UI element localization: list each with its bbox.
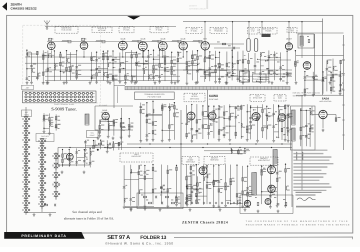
pilot label line 2 xyxy=(296,194,316,195)
wire ratio det leg 1 xyxy=(123,165,125,206)
value label xyxy=(154,187,156,190)
ground ratio det xyxy=(130,207,133,210)
resistor sound IF 3.2 xyxy=(113,123,115,126)
value label xyxy=(188,65,190,68)
junction volume 3 xyxy=(100,140,101,141)
value label xyxy=(289,116,291,119)
junction sync 18 xyxy=(278,105,279,106)
resistor picture tube leads 6.1 xyxy=(174,106,176,109)
value label xyxy=(286,75,289,78)
resistor sync coupling 2.2 xyxy=(238,151,240,154)
value label xyxy=(264,126,267,129)
value label xyxy=(307,35,309,38)
junction top bus xyxy=(248,21,249,22)
capacitor sync 3.2 xyxy=(196,130,199,132)
wire sound IF leg 4 xyxy=(120,119,122,136)
capacitor sync 8.2 xyxy=(223,128,226,130)
value label xyxy=(163,188,165,191)
wire discriminator leg 3 xyxy=(176,165,178,203)
value label xyxy=(279,176,281,179)
coil power filter 1.1 xyxy=(327,60,328,64)
value label xyxy=(288,72,291,75)
ground tuner RF 5 xyxy=(47,81,50,84)
value label xyxy=(45,51,47,54)
value label xyxy=(206,73,209,76)
capacitor ratio det 2.2 xyxy=(130,199,133,201)
resistor deflection 6.2 xyxy=(213,182,215,185)
junction ratio det 5 xyxy=(152,164,153,165)
wire deflection interconnect 3 xyxy=(196,188,203,190)
capacitor audio 3.1 xyxy=(75,152,78,154)
junction sound IF i2 xyxy=(108,121,109,122)
value label xyxy=(39,72,41,75)
capacitor video 7.3 xyxy=(218,78,221,80)
capacitor video 10.2 xyxy=(237,78,240,80)
wire audio takeoff interconnect 1 xyxy=(107,147,113,149)
junction ratio det i3 xyxy=(130,172,131,173)
resistor lv filter 2 xyxy=(165,196,168,198)
value label xyxy=(188,118,191,121)
value label xyxy=(244,193,247,196)
capacitor audio 5.2 xyxy=(89,163,92,165)
value label xyxy=(45,114,48,117)
junction hv i1 xyxy=(304,79,305,80)
wire tuner RF leg 3 xyxy=(36,51,38,80)
junction pix IF i2 xyxy=(153,59,154,60)
svg-text:S-9009 Tuner.: S-9009 Tuner. xyxy=(51,106,77,111)
junction sync 5 xyxy=(208,105,209,106)
value label xyxy=(328,66,331,69)
value label xyxy=(132,200,135,203)
value label xyxy=(306,87,308,90)
value label xyxy=(249,132,251,135)
svg-text:VOL: VOL xyxy=(91,132,94,135)
wire deflection interconnect 1 xyxy=(196,195,207,197)
wire pix IF leg 14 xyxy=(164,51,166,81)
value label xyxy=(204,127,207,130)
ground IF strip xyxy=(271,81,274,84)
value label xyxy=(188,69,191,72)
junction pix IF i8 xyxy=(91,77,92,78)
wire IF strip interconnect lower xyxy=(45,69,230,71)
value label xyxy=(142,112,144,115)
ground sync 2 xyxy=(190,140,193,143)
value label xyxy=(215,108,217,111)
value label xyxy=(62,56,65,59)
wire damper link B xyxy=(263,73,292,75)
resistor hv 4.1 xyxy=(330,77,332,80)
wire ratio det bottom xyxy=(125,206,154,208)
tuner contact row2 pin7 xyxy=(50,96,52,98)
coil tuner RF 8.1 xyxy=(67,58,68,62)
value label xyxy=(122,126,125,129)
resistor pix IF 6.2 xyxy=(119,69,121,72)
value label xyxy=(250,57,253,60)
electrolytic capacitor can C60a xyxy=(247,39,250,52)
tube V11 sync amplifier xyxy=(208,112,216,120)
junction sync 4 xyxy=(202,105,203,106)
coil sync 16.2 xyxy=(267,117,268,121)
resistor deflection 5.2 xyxy=(206,185,208,188)
junction pix IF 3 xyxy=(103,51,104,52)
wire discriminator leg 1 xyxy=(160,165,162,204)
value label xyxy=(198,192,201,195)
value label xyxy=(282,64,284,67)
capacitor audio coupling xyxy=(110,143,112,146)
value label xyxy=(308,133,311,136)
capacitor picture tube leads 2.1 xyxy=(146,115,149,117)
coil tuner RF 6.1 xyxy=(54,64,55,68)
tube V15 sound IF xyxy=(102,113,109,120)
wire video leg 5 xyxy=(209,52,211,81)
wire fine tuning leg 3 xyxy=(55,114,57,130)
ground picture tube leads 4 xyxy=(161,139,164,142)
value label xyxy=(121,67,124,70)
value label xyxy=(188,72,191,75)
value label xyxy=(280,117,282,120)
svg-text:ZENITH: ZENITH xyxy=(189,5,197,8)
resistor picture tube leads 1.2 xyxy=(140,110,142,113)
value label xyxy=(306,74,308,77)
junction hor out 2 xyxy=(270,165,271,166)
tuner contact row1 pin7 xyxy=(50,92,52,94)
ground ratio det 2 xyxy=(144,207,147,210)
wire stub xyxy=(113,67,115,69)
wire pix IF leg 12 xyxy=(153,50,155,81)
wire deflection leg 6 xyxy=(213,166,215,205)
junction audio 5 xyxy=(90,148,91,149)
tube V18 horizontal output xyxy=(268,185,276,193)
capacitor ratio det 4.1 xyxy=(144,172,147,174)
wire band branch xyxy=(117,86,119,103)
wire channel strip column B spine xyxy=(41,138,43,212)
capacitor vert out extra 2.1 xyxy=(191,187,194,189)
value label xyxy=(86,158,88,161)
value label xyxy=(208,173,210,176)
tuner contact row3 pin6 xyxy=(45,99,47,101)
value label xyxy=(109,61,111,64)
svg-text:RATIO DET: RATIO DET xyxy=(132,155,143,158)
junction video 1 xyxy=(186,51,187,52)
value label xyxy=(263,170,266,173)
value label xyxy=(264,107,266,110)
junction pix IF 5 xyxy=(112,50,113,51)
wire vert out extra leg 1 xyxy=(186,175,188,203)
capacitor sync 2.1 xyxy=(191,129,194,131)
wire stub xyxy=(267,68,269,70)
svg-text:6AU6: 6AU6 xyxy=(141,37,146,40)
svg-text:45.75 MC: 45.75 MC xyxy=(98,29,107,32)
junction sync 7 xyxy=(218,105,219,106)
value label xyxy=(102,144,104,147)
value label xyxy=(150,53,152,56)
resistor deflection 7.2 xyxy=(218,189,220,192)
tuner contact row1 pin17 xyxy=(91,92,93,94)
wire deflection interconnect 6 xyxy=(187,186,191,188)
value label xyxy=(341,72,344,75)
note line 8 xyxy=(293,173,326,174)
wire stub xyxy=(261,65,264,67)
svg-text:PRELIMINARY DATA: PRELIMINARY DATA xyxy=(21,234,66,238)
capacitor pix IF 2.1 xyxy=(95,60,98,62)
value label xyxy=(264,55,266,58)
wire tuner RF interconnect 2 xyxy=(32,76,38,78)
value label xyxy=(93,74,95,77)
resistor deflection 8.2 xyxy=(225,187,227,190)
coil deflection 5.1 xyxy=(207,174,208,178)
resistor video 5.3 xyxy=(209,73,211,76)
value label xyxy=(217,41,220,44)
resistor tuner RF 10.2 xyxy=(76,71,78,74)
value label xyxy=(289,112,292,115)
resistor volume 2.1 xyxy=(93,145,95,148)
junction sync bus xyxy=(281,143,282,144)
value label xyxy=(315,75,318,78)
capacitor damper 2.1 xyxy=(268,56,271,58)
value label xyxy=(93,55,96,58)
value label xyxy=(239,59,241,62)
junction deflection 5 xyxy=(206,165,207,166)
resistor deflection 9.1 xyxy=(230,179,232,182)
resistor pix IF 16.2 xyxy=(177,58,179,61)
junction tuner RF 1 xyxy=(26,50,27,51)
wire video leg 11 xyxy=(242,51,244,82)
tuner contact row3 pin12 xyxy=(70,99,72,101)
resistor pilot 2 xyxy=(285,202,287,205)
capacitor picture tube leads 2.3 xyxy=(146,135,149,137)
wire tuner RF leg 8 xyxy=(66,51,68,81)
wire sync bus xyxy=(127,143,292,145)
junction width feed 2 xyxy=(232,63,233,64)
capacitor hor osc box 2.3 xyxy=(305,136,308,138)
junction video 7 xyxy=(219,52,220,53)
capacitor deflection 2.3 xyxy=(190,195,193,197)
wire audio takeoff leg 1 xyxy=(106,140,108,150)
wire video interconnect 6 xyxy=(232,75,238,77)
capacitor sync 16.1 xyxy=(266,114,269,116)
value label xyxy=(279,170,282,173)
ground ratio det 4 xyxy=(144,205,147,208)
value label xyxy=(276,52,278,55)
wire hor control grid xyxy=(312,106,319,115)
resistor hor osc box 3.3 xyxy=(309,128,311,131)
value label xyxy=(173,69,175,72)
coil video 9.1 xyxy=(232,64,233,68)
horizontal transformer winding xyxy=(273,150,277,166)
value label xyxy=(342,82,344,85)
junction B+ bus xyxy=(104,147,105,148)
value label xyxy=(150,73,153,76)
capacitor lv filter 1 xyxy=(156,196,158,199)
junction damper i2 xyxy=(260,77,261,78)
wire tube cathode lead xyxy=(50,50,52,57)
resistor lv filter 4 xyxy=(171,202,174,204)
wire hor osc box leg 1 xyxy=(300,109,302,146)
value label xyxy=(188,197,191,200)
svg-text:IF COIL: IF COIL xyxy=(191,29,197,32)
value label xyxy=(282,76,285,79)
ground hor out 2 xyxy=(269,205,272,208)
ground can A xyxy=(247,79,250,82)
coil pix IF 1.3 xyxy=(91,75,92,79)
junction audio 4 xyxy=(84,149,85,150)
wire ratio det interconnect 3 xyxy=(131,172,139,174)
value label xyxy=(206,69,209,72)
svg-text:VERT OUT: VERT OUT xyxy=(186,161,196,164)
wire tuner RF leg 10 xyxy=(76,51,78,80)
ground volume 1 xyxy=(84,148,87,151)
value label xyxy=(192,173,195,176)
wire deflection leg 2 xyxy=(190,165,192,205)
wire discriminator leg 2 xyxy=(167,165,169,205)
junction sync bus xyxy=(229,143,230,144)
ground pix IF 16 xyxy=(177,80,180,83)
junction sync i13 xyxy=(278,106,279,107)
svg-text:CONTROL: CONTROL xyxy=(255,78,264,81)
junction top bus xyxy=(232,21,233,22)
capacitor video 5.2 xyxy=(209,68,212,70)
capacitor sync 10.2 xyxy=(235,117,238,119)
ground IF strip xyxy=(109,81,112,84)
value label xyxy=(268,115,270,118)
coil sound IF 1.1 xyxy=(100,120,101,124)
coil pix IF 11.2 xyxy=(148,75,149,79)
wire video feed horizontal xyxy=(114,85,125,87)
value label xyxy=(45,70,48,73)
value label xyxy=(188,199,191,202)
junction vert out extra i1 xyxy=(186,188,187,189)
wire channel strip column A spine xyxy=(25,107,27,212)
wire hor osc feed xyxy=(204,150,250,152)
wire audio takeoff leg 3 xyxy=(118,142,120,150)
tick on B+ riser xyxy=(342,119,345,121)
ground deflection 11 xyxy=(241,205,244,208)
value label xyxy=(221,67,224,70)
capacitor pix IF 13.2 xyxy=(158,76,161,78)
trimmer capacitor xyxy=(178,40,181,43)
wire stub xyxy=(242,136,244,138)
wire sync interconnect 12 xyxy=(251,107,263,109)
junction sync bus xyxy=(207,143,208,144)
ratio det label box xyxy=(120,153,153,162)
capacitor damper 4.2 xyxy=(279,78,282,80)
value label xyxy=(270,53,272,56)
value label xyxy=(275,123,277,126)
switch section contact A6 xyxy=(23,159,30,166)
junction xyxy=(83,56,84,57)
wire sync leg 16 xyxy=(266,106,268,139)
value label xyxy=(324,76,326,79)
wire video interconnect 7 xyxy=(220,70,227,72)
capacitor video 8.3 xyxy=(226,75,229,77)
ground pix IF 8 xyxy=(130,80,133,83)
wire deflection leg 10 xyxy=(236,165,238,205)
capacitor sync 3.3 xyxy=(196,131,199,133)
resistor hor out 3.2 xyxy=(276,178,278,181)
wire sync leg 19 xyxy=(284,104,286,139)
junction hor out i1 xyxy=(261,191,262,192)
value label xyxy=(176,115,179,118)
coil video 1.3 xyxy=(187,70,188,74)
wire video peaking run A xyxy=(210,43,244,45)
value label xyxy=(169,168,172,171)
value label xyxy=(95,144,98,147)
horizontal oscillator transformer box xyxy=(291,106,316,150)
value label xyxy=(142,108,145,111)
ground sync 17 xyxy=(272,139,275,142)
resistor sound IF 5.2 xyxy=(128,126,130,129)
coil pix IF 1.2 xyxy=(91,57,92,61)
ground bottom bus xyxy=(244,208,247,211)
junction damper B xyxy=(283,73,284,74)
value label xyxy=(215,179,218,182)
tube V8 damper xyxy=(285,43,292,50)
wire sync coupling leg 2 xyxy=(237,149,239,155)
resistor pix IF 15.3 xyxy=(171,71,173,74)
capacitor sync 13.2 xyxy=(249,122,252,124)
value label xyxy=(338,116,341,119)
wire damper leg 1 xyxy=(259,52,261,80)
value label xyxy=(238,199,241,202)
tuner turret contact strip box xyxy=(23,91,97,103)
wire video leg 3 xyxy=(197,51,199,81)
junction picture tube leads i1 xyxy=(162,130,163,131)
resistor discriminator 3.3 xyxy=(176,199,178,202)
value label xyxy=(220,187,223,190)
wire picture tube leads leg 2 xyxy=(146,103,148,139)
linearity control box xyxy=(253,74,267,82)
capacitor pix IF 5.1 xyxy=(112,59,115,61)
wire power filter leg 3 xyxy=(340,60,342,91)
switch section contact B9 xyxy=(39,202,46,209)
tube socket pin row xyxy=(185,202,247,204)
tuner contact row2 pin9 xyxy=(58,96,60,98)
value label xyxy=(243,104,245,107)
value label xyxy=(146,169,149,172)
capacitor pix IF 11.1 xyxy=(147,56,150,58)
svg-text:6T8: 6T8 xyxy=(203,37,206,40)
resistor video 1.2 xyxy=(186,66,188,69)
agc label box xyxy=(274,95,286,102)
tube V10 vertical oscillator xyxy=(187,112,195,120)
coil hv 2.2 xyxy=(313,76,314,80)
resistor sync 4.1 xyxy=(202,112,204,115)
2nd pix IF label box xyxy=(119,27,134,33)
junction video i4 xyxy=(204,57,205,58)
value label xyxy=(268,111,270,114)
wire stub xyxy=(266,67,269,69)
coil ratio det 3.3 xyxy=(139,190,140,194)
ground picture tube leads 3 xyxy=(152,138,155,141)
ground hor out 4 xyxy=(284,204,287,207)
wire sound IF leg 2 xyxy=(107,119,109,135)
switch section contact A8 xyxy=(23,173,30,180)
value label xyxy=(192,169,194,172)
switch section contact A5 xyxy=(23,152,30,159)
wire pix IF interconnect 6 xyxy=(165,69,172,71)
resistor sound IF 1.2 xyxy=(99,125,101,128)
wire sync interconnect 9 xyxy=(219,129,224,131)
capacitor pix IF 12.3 xyxy=(152,77,155,79)
resistor sync 15.2 xyxy=(262,128,264,131)
resistor vert out extra 3.1 xyxy=(197,183,199,186)
value label xyxy=(141,194,143,197)
tuner contact row1 pin3 xyxy=(33,92,35,94)
value label xyxy=(56,65,58,68)
ground audio takeoff 1 xyxy=(106,150,109,153)
wire sync leg 8 xyxy=(223,105,225,138)
capacitor tuner RF 1.2 xyxy=(26,78,29,80)
